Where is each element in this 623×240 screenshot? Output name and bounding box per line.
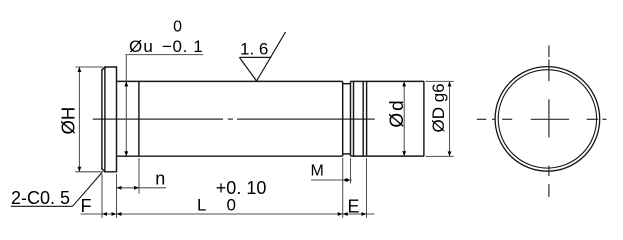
dimension OD g6 bbox=[425, 81, 453, 156]
end view inner circle bbox=[498, 70, 596, 168]
dimension L arrows bbox=[117, 212, 122, 216]
end view centerlines bbox=[477, 45, 607, 197]
node end face bbox=[423, 81, 425, 156]
svg-text:+0. 10: +0. 10 bbox=[216, 178, 267, 198]
svg-text:−0. 1: −0. 1 bbox=[162, 37, 203, 56]
node groove bottom edge bbox=[343, 153, 351, 155]
node step face bbox=[342, 81, 344, 156]
svg-text:1. 6: 1. 6 bbox=[240, 40, 268, 59]
bottom dimension line F L E bbox=[81, 158, 375, 218]
wire top edge journal bbox=[351, 80, 424, 82]
vertical centerline bbox=[548, 45, 550, 57]
svg-text:ØH: ØH bbox=[58, 107, 79, 135]
svg-text:ØD g6: ØD g6 bbox=[429, 83, 448, 132]
chamfer note 2-C0.5 bbox=[11, 173, 102, 207]
dimension F arrows bbox=[102, 212, 107, 216]
horizontal centerline bbox=[477, 118, 487, 120]
svg-text:Øu: Øu bbox=[129, 37, 154, 56]
wire bottom edge journal bbox=[351, 155, 424, 157]
svg-text:L: L bbox=[197, 196, 206, 215]
dimension E arrows bbox=[343, 212, 348, 216]
head (flange) outline bbox=[102, 67, 117, 172]
node u-zone line bbox=[138, 81, 140, 156]
svg-text:F: F bbox=[81, 196, 92, 216]
dimension Od bbox=[403, 81, 405, 156]
wire top edge main bbox=[117, 80, 343, 82]
svg-text:M: M bbox=[311, 163, 324, 180]
svg-text:0: 0 bbox=[173, 18, 182, 35]
svg-text:Ød: Ød bbox=[387, 98, 408, 127]
node ring groove left bbox=[362, 81, 364, 156]
dimension OH bbox=[75, 67, 103, 172]
node journal start bbox=[350, 81, 352, 156]
end view outer circle bbox=[495, 67, 600, 172]
svg-text:2-C0. 5: 2-C0. 5 bbox=[11, 188, 70, 208]
node groove top edge bbox=[343, 83, 351, 85]
centerline side view bbox=[93, 118, 375, 120]
wire bottom edge main bbox=[117, 155, 343, 157]
node chamfer line bbox=[353, 81, 355, 156]
dimension Ou with tolerance bbox=[125, 55, 203, 157]
dimension n bbox=[117, 158, 167, 218]
surface finish symbol 1.6 bbox=[239, 32, 285, 81]
svg-text:E: E bbox=[348, 196, 360, 216]
node ring groove right bbox=[366, 81, 368, 156]
svg-text:n: n bbox=[155, 169, 165, 189]
dimension M bbox=[311, 158, 352, 218]
shaft body outline bbox=[117, 81, 424, 156]
svg-text:0: 0 bbox=[227, 196, 236, 215]
